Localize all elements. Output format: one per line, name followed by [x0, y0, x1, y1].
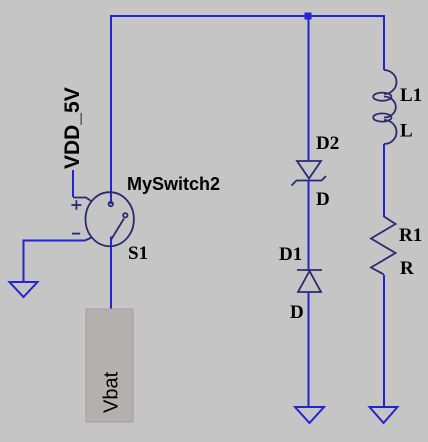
- svg-text:L1: L1: [400, 85, 422, 106]
- ground left: [10, 282, 38, 297]
- wire VDD lead to plus terminal: [72, 170, 74, 197]
- zener diode D2: [292, 161, 327, 186]
- switch S1 minus terminal mark: [72, 233, 80, 235]
- svg-text:Vbat: Vbat: [101, 371, 123, 413]
- wire right vertical top: [383, 16, 385, 70]
- voltage source Vbat block: [86, 309, 133, 422]
- switch S1: [86, 192, 134, 246]
- node junction: [305, 13, 312, 20]
- ground right: [370, 407, 398, 423]
- svg-text:L: L: [400, 121, 413, 142]
- diode D1: [297, 270, 322, 292]
- svg-text:R1: R1: [399, 225, 422, 246]
- svg-text:R: R: [400, 258, 414, 279]
- wire middle vertical top: [308, 16, 310, 162]
- ground middle: [295, 407, 324, 423]
- wire left vertical from top rail to switch: [110, 15, 112, 204]
- wire minus lead: [24, 241, 86, 283]
- wire R1 to ground: [383, 275, 385, 407]
- wire switch to Vbat: [110, 237, 112, 310]
- svg-text:VDD_5V: VDD_5V: [61, 87, 84, 169]
- switch S1 plus terminal mark: [71, 200, 81, 210]
- switch S1 minus lead: [85, 238, 92, 241]
- resistor R1: [371, 217, 396, 275]
- svg-text:D1: D1: [279, 244, 302, 265]
- svg-text:D2: D2: [316, 133, 339, 154]
- wire between D2 and D1: [308, 181, 310, 271]
- wire D1 to ground: [308, 292, 310, 407]
- svg-text:S1: S1: [128, 243, 148, 264]
- svg-text:MySwitch2: MySwitch2: [127, 174, 220, 194]
- inductor L1: [373, 70, 396, 144]
- svg-text:D: D: [316, 189, 330, 210]
- wire L1 to R1: [383, 144, 385, 217]
- wire top horizontal: [110, 15, 385, 17]
- svg-text:D: D: [290, 302, 304, 323]
- switch S1 plus lead: [73, 198, 92, 202]
